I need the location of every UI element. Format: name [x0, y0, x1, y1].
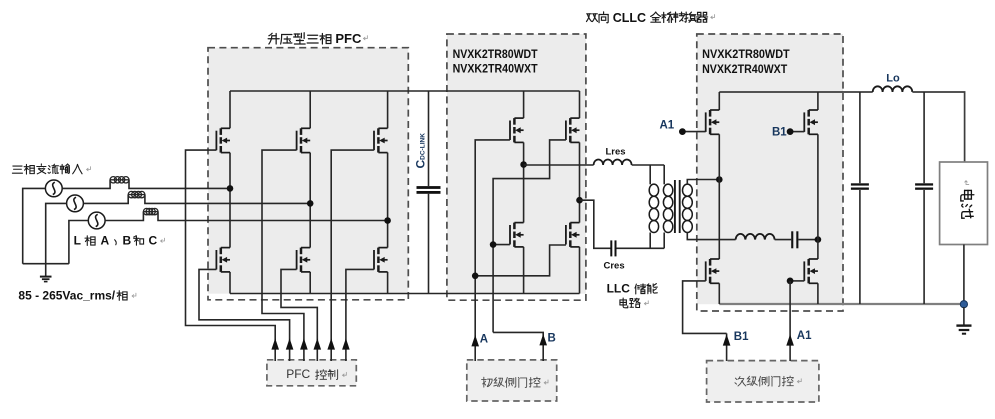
label battery (rotated)	[961, 190, 974, 218]
wire: A1 drop to gate-drive box	[789, 281, 791, 361]
transformer T1 primary winding	[663, 184, 672, 196]
node: primary bridge output B (right leg midpoint)	[576, 197, 583, 204]
transistor Q6 (PFC leg 3 low-side MOSFET)	[377, 248, 380, 255]
wire: capacitor to right leg	[798, 239, 818, 241]
svg-text:NVXK2TR80WDT: NVXK2TR80WDT	[702, 49, 790, 61]
transistor Q1 (PFC leg 1 high-side MOSFET)	[220, 128, 223, 135]
wire: PFC leg 2	[309, 91, 311, 128]
transistor Q4 (PFC leg 2 low-side MOSFET)	[300, 248, 303, 255]
wire: phase C to PFC leg 3	[158, 212, 388, 221]
wire: phase B to PFC leg 2	[145, 195, 310, 204]
wire: primary gate B net	[493, 140, 566, 333]
svg-text:A: A	[101, 234, 110, 248]
svg-text:B: B	[123, 234, 132, 248]
wire: primary bridge leg 2	[579, 91, 581, 118]
wire: PFC leg 3	[387, 91, 389, 128]
label C_DC-LINK (rotated)	[414, 133, 428, 169]
node: secondary right leg junction	[815, 236, 822, 243]
transistor Q2 (PFC leg 1 low-side MOSFET)	[220, 248, 223, 255]
node: gate B junction	[490, 241, 497, 248]
capacitor output C1	[859, 92, 861, 183]
wire: Lres to transformer top	[632, 164, 665, 166]
wire: neutral bottom bus	[23, 263, 69, 265]
wire: battery bottom to ground node	[963, 245, 965, 305]
node: phase A junction	[227, 185, 234, 192]
wire: phase A to PFC leg 1	[129, 180, 230, 189]
transformer T1 secondary winding	[683, 184, 693, 196]
label secondary-side gate drive	[735, 377, 746, 386]
wire: node B down to Cres	[580, 200, 612, 248]
inductor Lres	[594, 160, 632, 166]
transistor primary leg 1 low-side MOSFET	[513, 223, 516, 230]
svg-text:L: L	[74, 234, 81, 248]
svg-text:NVXK2TR40WXT: NVXK2TR40WXT	[702, 64, 787, 76]
arrowhead A (primary gate drive)	[471, 335, 479, 346]
capacitor output C2	[923, 92, 925, 183]
wire: primary gate B to low-side left MOSFET	[493, 244, 510, 246]
svg-text:Lres: Lres	[606, 147, 626, 158]
node: primary bridge output A (left leg midpoint)	[520, 161, 527, 168]
svg-text:CLLC: CLLC	[613, 11, 646, 25]
label bidirectional CLLC full-bridge converter (title)	[586, 14, 597, 22]
inductor L-A	[110, 179, 129, 181]
capacitor secondary series	[791, 231, 793, 248]
label boost three-phase PFC (title)	[268, 33, 279, 44]
wire: gate A1 (top-left)	[682, 131, 705, 133]
AC source V1 (phase A)	[45, 180, 62, 197]
svg-text:Cres: Cres	[604, 261, 625, 272]
svg-text:NVXK2TR80WDT: NVXK2TR80WDT	[453, 49, 538, 61]
capacitor C_DC-LINK	[428, 91, 430, 186]
svg-text:PFC: PFC	[335, 31, 362, 46]
wire: secondary bottom rail (to battery ground)	[719, 303, 964, 305]
inductor Lm winding	[649, 184, 658, 196]
secondary-side gate-drive block (dashed box)	[707, 361, 819, 402]
wire: secondary bottom to series tank	[687, 233, 735, 240]
wire: gate B1 (top-right)	[790, 131, 804, 133]
wire: primary gate A branch to low-side right MOSFET	[475, 245, 566, 276]
secondary full-bridge block (dashed box)	[697, 34, 843, 304]
wire: PFC gate 4 (leg2 low) to control	[281, 269, 317, 361]
battery (rectangle)	[940, 162, 988, 245]
node: B1 terminal dot	[787, 128, 794, 135]
svg-text:LLC: LLC	[607, 282, 631, 296]
ground (output)	[963, 307, 965, 325]
wire: secondary top to left leg	[687, 180, 719, 185]
arrowhead A1	[786, 334, 794, 345]
wire: gate A1 (bottom-right)	[790, 280, 804, 282]
transistor primary leg 2 high-side MOSFET	[569, 118, 572, 125]
wire: secondary bridge leg 1	[718, 92, 720, 110]
wire: secondary top rail	[719, 91, 872, 93]
arrowhead on PFC gate wire x=275	[271, 338, 279, 349]
node: phase C junction	[384, 217, 391, 224]
inductor Lo on output rail	[873, 86, 913, 92]
svg-text:B: B	[548, 333, 556, 345]
svg-text:C: C	[149, 234, 158, 248]
inductor L-B	[128, 194, 145, 196]
AC source V3 (phase C)	[88, 212, 105, 229]
arrowhead on PFC gate wire x=331	[327, 338, 335, 349]
inductor secondary series	[736, 234, 775, 240]
capacitor Cres	[610, 240, 612, 256]
wire: PFC gate 3 (leg2 high) to control	[262, 150, 304, 361]
transistor Q5 (PFC leg 3 high-side MOSFET)	[377, 128, 380, 135]
transistor secondary leg 1 low-side MOSFET	[709, 259, 712, 266]
primary full-bridge block (dashed box)	[447, 34, 586, 294]
svg-text:85 - 265Vac_rms/: 85 - 265Vac_rms/	[18, 289, 115, 303]
wire: PFC gate 2 (leg1 low) to control	[199, 269, 290, 361]
node: gate A junction	[472, 273, 479, 280]
arrowhead B (primary gate drive)	[539, 334, 547, 345]
wire: V2 left to neutral bus	[46, 203, 67, 263]
wire: gate B1 (bottom-left) to gate-drive	[683, 281, 727, 334]
wire: V3 left to neutral bus	[69, 221, 88, 264]
transistor Q3 (PFC leg 2 high-side MOSFET)	[300, 128, 303, 135]
svg-text:NVXK2TR40WXT: NVXK2TR40WXT	[453, 63, 538, 75]
wire: secondary bridge leg 2	[817, 92, 819, 110]
arrowhead B1	[723, 334, 731, 345]
wire: primary gate A net	[475, 140, 510, 361]
wire: PFC gate 6 (leg3 low) to control	[346, 269, 374, 361]
primary-side gate-drive block (dashed box)	[467, 360, 557, 401]
node: output ground junction (blue)	[960, 301, 967, 308]
PFC control block (dashed box)	[267, 360, 356, 386]
svg-text:B1: B1	[734, 331, 749, 343]
wire: DC top rail (PFC + primary bridge)	[230, 90, 580, 92]
wire: node A to Lres	[524, 164, 594, 166]
arrowhead on PFC gate wire x=290	[286, 338, 294, 349]
inductor Lm (magnetizing) stubs	[649, 165, 651, 184]
wire: DC bottom rail (PFC + primary bridge)	[230, 293, 580, 295]
node: A1 bottom terminal dot	[787, 278, 794, 285]
arrowhead on PFC gate wire x=304	[300, 338, 308, 349]
PFC stage block (dashed box)	[208, 48, 408, 294]
wire: primary gate B drop to gate-drive box	[493, 332, 543, 361]
wire: PFC leg 1	[229, 91, 231, 128]
ground (AC neutral)	[45, 264, 47, 276]
svg-text:A1: A1	[797, 330, 812, 342]
wire: phase B from V2 to inductor	[83, 195, 128, 204]
transistor primary leg 2 low-side MOSFET	[569, 223, 572, 230]
svg-text:A: A	[480, 334, 488, 346]
wire: primary bridge leg 1	[523, 91, 525, 118]
wire: Cres to transformer bottom	[617, 247, 665, 249]
wire: V1 left to neutral bus	[23, 188, 46, 263]
node: A1 terminal dot	[679, 128, 686, 135]
arrowhead on PFC gate wire x=317	[314, 338, 322, 349]
node: phase B junction	[307, 200, 314, 207]
svg-text:Lo: Lo	[886, 73, 900, 85]
transistor secondary leg 1 high-side MOSFET	[709, 110, 712, 117]
label primary-side gate drive	[482, 377, 493, 387]
transformer T1 primary stubs	[663, 165, 665, 184]
transformer T1 core	[674, 180, 676, 233]
wire: PFC gate 1 (leg1 high) to control	[186, 150, 276, 361]
label three-phase AC input	[12, 166, 22, 173]
wire: phase C from V3 to inductor	[105, 212, 143, 221]
wire: to series capacitor	[775, 239, 792, 241]
svg-text:PFC: PFC	[286, 367, 310, 381]
AC source V2 (phase B)	[67, 195, 84, 212]
svg-text:B1: B1	[772, 126, 787, 138]
wire: PFC gate 5 (leg3 high) to control	[331, 150, 374, 361]
wire: output rail after Lo to battery	[912, 92, 964, 162]
wire: phase A from V1 to inductor	[62, 180, 110, 189]
arrowhead on PFC gate wire x=346	[342, 338, 350, 349]
node: secondary top junction	[716, 176, 723, 183]
inductor L-C	[143, 211, 158, 213]
transistor secondary leg 2 high-side MOSFET	[807, 110, 810, 117]
svg-text:A1: A1	[660, 119, 675, 131]
transistor primary leg 1 high-side MOSFET	[513, 118, 516, 125]
wire: B1 drop to gate-drive box	[726, 333, 728, 361]
transistor secondary leg 2 low-side MOSFET	[807, 259, 810, 266]
